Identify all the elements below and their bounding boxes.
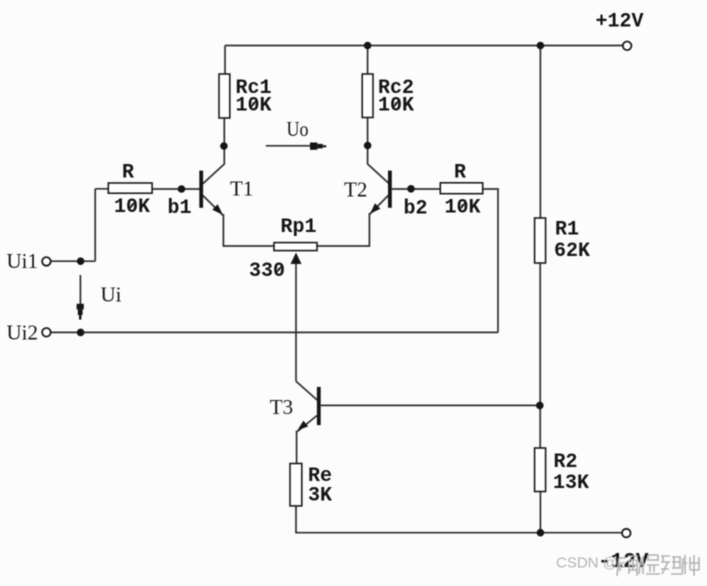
watermark hanzi glyphs — [617, 555, 699, 576]
resistor R right — [440, 183, 482, 194]
slash in 10K Rc2 — [393, 100, 400, 109]
svg-text:R: R — [454, 162, 466, 185]
wire T3 emitter to Re — [296, 431, 298, 464]
wire T2 base — [392, 188, 441, 190]
wire T2 emitter to Rp1 right — [317, 213, 369, 246]
wire T1 emitter — [203, 196, 224, 216]
slash in 10K Rc1 — [250, 100, 257, 109]
resistor Rc2 — [362, 74, 373, 118]
wire R right to Ui2 line — [483, 189, 498, 332]
svg-text:10K: 10K — [445, 197, 481, 220]
junction dot b2 — [407, 185, 415, 193]
svg-text:R: R — [122, 162, 134, 185]
slash in 10K R left — [129, 201, 136, 210]
svg-text:Ui2: Ui2 — [7, 321, 39, 345]
resistor Rc1 — [219, 74, 230, 118]
terminal Ui1 — [42, 257, 51, 266]
junction dot Ui2 — [77, 329, 85, 337]
wire R1 to R2 — [539, 263, 541, 448]
slash in 330 — [276, 265, 283, 274]
wire Rc1 bottom — [223, 118, 225, 149]
svg-text:Ui1: Ui1 — [7, 249, 39, 273]
wire T2 collector — [368, 146, 390, 184]
slashed zero marks — [129, 100, 467, 274]
svg-text:62K: 62K — [554, 240, 590, 263]
wire Rp1 wiper down — [295, 263, 297, 381]
wire R2 bottom — [539, 492, 541, 533]
Ui arrowhead — [77, 304, 84, 310]
wire T3 emitter — [297, 416, 317, 432]
svg-text:T1: T1 — [230, 177, 253, 201]
svg-text:330: 330 — [249, 260, 285, 283]
svg-text:10K: 10K — [378, 95, 414, 118]
svg-text:T3: T3 — [270, 395, 293, 419]
resistor R left — [108, 183, 152, 193]
wire T1 base — [152, 188, 200, 190]
T1 emitter arrowhead — [212, 204, 223, 215]
junction dot Rc1 bottom — [220, 142, 228, 150]
Uo arrowhead — [310, 143, 317, 150]
wire T1 collector — [203, 146, 225, 184]
svg-text:Uo: Uo — [287, 117, 309, 141]
transistor T1 bar — [199, 171, 203, 208]
wire Ui1 to R left — [51, 189, 108, 261]
svg-text:Rp1: Rp1 — [281, 216, 317, 239]
wire R1 top drop — [539, 46, 541, 219]
slash in 10K R right — [459, 202, 466, 211]
wire Rc2 top — [367, 46, 369, 75]
wire T3 base — [321, 404, 540, 406]
wire +12V top rail — [225, 45, 623, 47]
wire Ui arrow shaft — [79, 275, 81, 305]
transistor T3 bar — [317, 387, 321, 425]
junction dot bottom rail — [537, 529, 545, 537]
junction dot Rc2 bottom — [364, 142, 372, 150]
svg-text:13K: 13K — [553, 472, 589, 495]
junction dot T3 base / R1-R2 — [536, 402, 544, 410]
potentiometer Rp1 — [274, 243, 317, 251]
svg-text:b1: b1 — [168, 197, 192, 220]
T2 emitter arrowhead — [370, 203, 380, 214]
wire T1 emitter to Rp1 left — [223, 214, 274, 246]
svg-text:b2: b2 — [404, 198, 428, 221]
svg-text:CSDN @: CSDN @ — [556, 555, 618, 572]
terminal +12V — [623, 42, 632, 51]
resistor R2 — [535, 448, 546, 492]
terminal Ui2 — [42, 328, 51, 337]
svg-text:3K: 3K — [308, 485, 332, 508]
wire Ui2 line — [51, 331, 498, 333]
Rp1 wiper arrowhead — [291, 253, 302, 265]
junction dot b1 — [178, 185, 186, 193]
svg-text:10K: 10K — [114, 196, 150, 219]
wire T3 collector diagonal — [296, 381, 317, 400]
transistor T2 bar — [388, 171, 392, 208]
wire Uo arrow shaft — [266, 145, 311, 147]
wire Rc1 top — [224, 46, 226, 75]
svg-text:R1: R1 — [555, 219, 579, 242]
resistor R1 — [535, 218, 546, 263]
junction dot rail R1 — [537, 42, 545, 50]
svg-text:+12V: +12V — [596, 11, 644, 34]
svg-text:T2: T2 — [344, 178, 367, 202]
svg-text:Ui: Ui — [101, 283, 122, 307]
T3 emitter arrowhead — [297, 421, 308, 431]
svg-text:10K: 10K — [236, 95, 272, 118]
terminal -12V — [622, 529, 631, 538]
wire Rc2 bottom — [367, 118, 369, 150]
junction dot Ui1 — [77, 257, 85, 265]
wire T2 emitter — [369, 196, 388, 215]
wire Re bottom — [296, 506, 622, 533]
svg-text:R2: R2 — [554, 451, 578, 474]
junction dot rail Rc2 — [364, 42, 372, 50]
resistor Re — [290, 464, 302, 506]
